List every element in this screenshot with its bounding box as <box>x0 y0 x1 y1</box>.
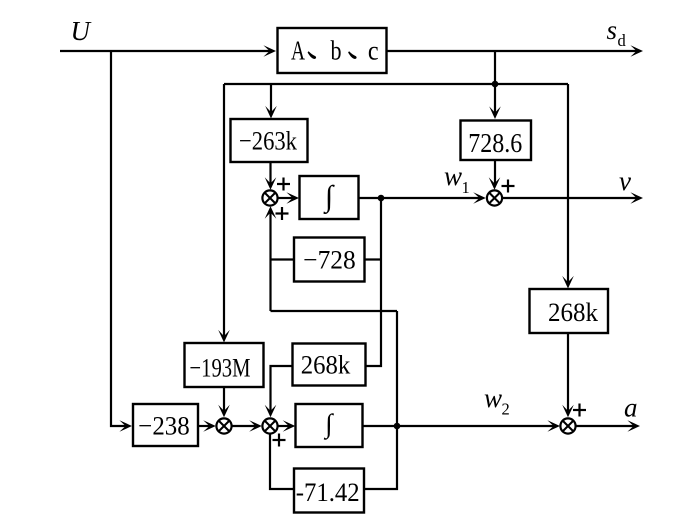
box -238 <box>133 404 198 446</box>
svg-text:c: c <box>368 35 379 65</box>
plus sign S3 top <box>502 180 515 193</box>
label w2 <box>484 383 510 419</box>
wire S4 to output a <box>576 420 640 432</box>
summing junction S3 <box>487 190 502 205</box>
box integrator 1 <box>300 176 359 219</box>
wire s_d tap down <box>494 51 496 84</box>
wire integrator 2 output to sum S4 <box>363 420 561 432</box>
wire bus to -193M <box>218 84 230 343</box>
svg-text:a: a <box>624 393 638 423</box>
summing junction S1 <box>262 190 277 205</box>
wire U input <box>60 45 276 57</box>
wire -238 to sum S2a <box>198 420 216 432</box>
svg-text:b: b <box>331 35 342 65</box>
label w1 <box>444 161 470 197</box>
wire 268k small output to sum S2b <box>265 366 293 417</box>
svg-text:v: v <box>619 166 631 196</box>
svg-text:728.6: 728.6 <box>468 128 522 158</box>
wire -193M output to sum S2a <box>218 387 230 417</box>
plus sign S1 bottom <box>276 207 289 220</box>
svg-text:−238: −238 <box>138 411 190 441</box>
plus sign S2b bottom <box>273 434 286 447</box>
box 268k small <box>293 344 366 386</box>
svg-text:268k: 268k <box>548 297 599 327</box>
wire -263k to sum S1 <box>265 162 277 190</box>
wire -728 right input <box>365 258 382 260</box>
box -71.42 <box>294 469 364 513</box>
wire S2a to S2b <box>232 420 262 432</box>
svg-text:U: U <box>71 16 92 46</box>
node w2 tap dot <box>394 423 401 430</box>
svg-text:A: A <box>291 35 305 65</box>
wire x397 down to w2 node <box>396 311 398 426</box>
svg-text:2: 2 <box>502 400 510 419</box>
node w1 tap dot <box>378 195 385 202</box>
output label s_d <box>607 15 627 50</box>
box 268k big <box>530 289 609 333</box>
svg-text:−263k: −263k <box>239 126 298 156</box>
wire S1 to integrator 1 <box>279 192 300 204</box>
svg-text:1: 1 <box>462 178 470 197</box>
wire s_d output <box>387 45 644 57</box>
box -193M <box>185 343 264 387</box>
wire -71.42 output to S2b bottom <box>270 434 294 489</box>
summing junction S4 <box>560 418 575 433</box>
box -728 <box>294 238 365 282</box>
svg-text:-71.42: -71.42 <box>296 477 360 507</box>
svg-text:∫: ∫ <box>323 180 335 215</box>
svg-text:−728: −728 <box>303 245 356 275</box>
svg-text:w: w <box>444 161 462 191</box>
svg-text:d: d <box>618 31 627 50</box>
wire w2 feedback to -71.42 <box>364 426 397 489</box>
wire 268k big to sum S4 <box>562 333 574 417</box>
plus sign S1 top <box>277 178 290 191</box>
wire -728 output to S1 bottom <box>265 206 294 311</box>
svg-text:s: s <box>607 15 618 45</box>
wire lower cross bus y311 <box>271 310 398 312</box>
box 728.6 <box>461 121 532 161</box>
box integrator 2 <box>296 404 363 447</box>
svg-text:w: w <box>484 383 502 413</box>
node junction dot on bus <box>492 81 499 88</box>
wire S3 to output v <box>503 192 643 204</box>
wire bus to -263k <box>265 84 277 119</box>
wire horizontal bus y84 <box>224 83 568 85</box>
plus sign S4 top <box>573 404 586 417</box>
summing junction S2a <box>216 418 231 433</box>
box A,b,c <box>278 28 387 73</box>
wire bus right to 268k big <box>562 84 574 289</box>
wire 728.6 to sum S3 <box>489 160 501 190</box>
wire w1 down to -728 and 268k <box>366 198 382 366</box>
wire S2b to integrator 2 <box>278 420 295 432</box>
wire integrator 1 output to sum S3 <box>359 192 486 204</box>
box -263k <box>231 119 308 162</box>
svg-text:∫: ∫ <box>323 409 334 441</box>
wire bus to 728.6 <box>489 84 501 119</box>
svg-text:−193M: −193M <box>190 353 251 383</box>
summing junction S2b <box>262 418 277 433</box>
svg-text:268k: 268k <box>301 350 351 380</box>
wire U branch down to -238 <box>111 51 132 432</box>
